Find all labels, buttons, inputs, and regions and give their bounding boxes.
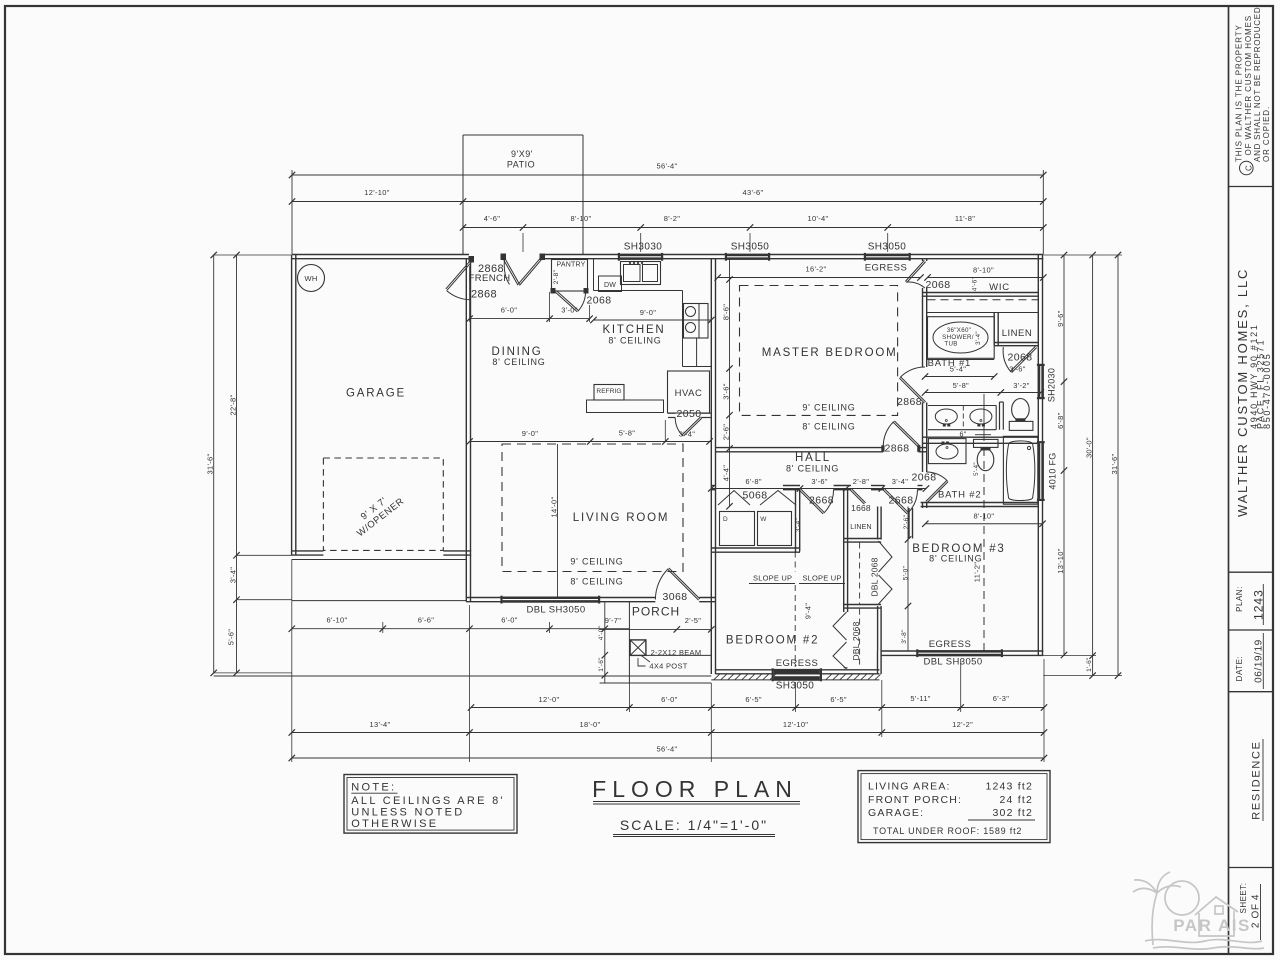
svg-text:DBL SH3050: DBL SH3050 [923, 657, 982, 668]
range [684, 304, 709, 339]
company name block [1229, 571, 1274, 573]
svg-text:2668: 2668 [809, 495, 834, 507]
svg-text:WH: WH [304, 274, 317, 283]
svg-text:DATE:: DATE: [1235, 656, 1244, 681]
linen closet door 2068 (bath1) [1010, 346, 1035, 371]
note box [344, 775, 517, 834]
bath1 north line [927, 359, 995, 361]
svg-text:31'-6": 31'-6" [1110, 454, 1119, 475]
bath2/bedroom3 wall [921, 502, 1039, 504]
svg-text:PORCH: PORCH [632, 605, 680, 619]
svg-text:2-2X12 BEAM: 2-2X12 BEAM [651, 648, 702, 657]
svg-text:2 OF 4: 2 OF 4 [1250, 894, 1261, 928]
bottom dim row 2 [471, 707, 1044, 709]
bedroom3 door 2668 [883, 490, 907, 514]
svg-text:1668: 1668 [851, 503, 871, 513]
svg-text:9'-0": 9'-0" [522, 429, 538, 438]
master width dim [718, 277, 921, 279]
laundry bifold 5068 [718, 491, 750, 506]
bath2 door 2068 [927, 482, 948, 503]
bath2 toilet [974, 439, 999, 447]
window SH3050 master egress [866, 254, 909, 260]
svg-text:9' CEILING: 9' CEILING [570, 557, 623, 567]
svg-text:9'-4": 9'-4" [804, 603, 813, 619]
porch vertical dims [604, 602, 606, 683]
svg-text:GARAGE:: GARAGE: [868, 807, 924, 819]
linen door 1668 [850, 490, 864, 504]
svg-text:18'-0": 18'-0" [580, 720, 601, 729]
svg-text:11'-8": 11'-8" [955, 214, 975, 223]
svg-text:SH3050: SH3050 [776, 681, 815, 692]
svg-text:2050: 2050 [677, 408, 702, 420]
master ceiling dashed [740, 286, 898, 416]
svg-text:BATH #2: BATH #2 [938, 490, 981, 501]
svg-text:REFRIG: REFRIG [596, 388, 621, 395]
svg-text:SCALE: 1/4"=1'-0": SCALE: 1/4"=1'-0" [620, 817, 768, 833]
svg-text:FRONT PORCH:: FRONT PORCH: [868, 794, 962, 806]
bath1 dims [925, 376, 994, 378]
svg-text:SHEET:: SHEET: [1239, 882, 1248, 913]
svg-text:3'-6": 3'-6" [1009, 365, 1025, 374]
svg-text:16'-2": 16'-2" [806, 265, 827, 274]
svg-text:ALL CEILINGS ARE 8': ALL CEILINGS ARE 8' [351, 795, 505, 807]
svg-text:2068: 2068 [926, 279, 951, 291]
pantry door 2068 [555, 292, 577, 312]
svg-text:2'-8": 2'-8" [553, 269, 560, 284]
svg-text:8' CEILING: 8' CEILING [492, 357, 545, 367]
hvac door 2050 [668, 412, 675, 414]
svg-text:3'-8": 3'-8" [901, 629, 908, 644]
window DBL SH3050 living room [503, 597, 598, 603]
master bath door 2868 [901, 377, 926, 402]
svg-text:3'-6": 3'-6" [811, 477, 827, 486]
svg-text:HVAC: HVAC [675, 388, 703, 399]
laundry D/W [720, 512, 755, 546]
svg-text:2068: 2068 [912, 472, 937, 484]
svg-text:12'-2": 12'-2" [952, 720, 973, 729]
kitchen sink [621, 262, 661, 285]
left dims [214, 254, 292, 256]
living room 14-0 dim [557, 444, 559, 598]
kitchen dim 9-0 [594, 319, 712, 321]
svg-text:56'-4": 56'-4" [657, 162, 678, 171]
svg-text:12'-10": 12'-10" [364, 188, 389, 197]
svg-text:RESIDENCE: RESIDENCE [1251, 740, 1263, 819]
svg-text:2'-8": 2'-8" [853, 477, 869, 486]
bedroom2 slope dashed [794, 552, 796, 573]
svg-text:DW: DW [604, 282, 616, 289]
svg-text:OF WALTHER CUSTOM HOMES: OF WALTHER CUSTOM HOMES [1244, 15, 1253, 156]
svg-text:8'-2": 8'-2" [664, 214, 680, 223]
window SH2030 bath1 [1038, 366, 1044, 397]
svg-text:2668: 2668 [889, 495, 914, 507]
bedroom3 slope dashed [983, 394, 985, 441]
bedroom2 closet bifold [833, 612, 847, 640]
svg-text:2'-5": 2'-5" [685, 616, 701, 625]
svg-text:1'-6": 1'-6" [1086, 657, 1093, 672]
bedroom3 west dims [907, 507, 909, 652]
svg-text:EGRESS: EGRESS [865, 262, 908, 273]
svg-text:36"X60": 36"X60" [947, 327, 971, 334]
title block divider [1228, 6, 1230, 954]
garage apron lines [292, 559, 467, 561]
bedroom2 wing south wall [716, 669, 880, 671]
garage front wall [292, 550, 324, 552]
garage east / dining west wall [465, 259, 467, 602]
svg-text:5'-8": 5'-8" [953, 381, 969, 390]
svg-text:GARAGE: GARAGE [346, 388, 406, 400]
svg-text:4'-6": 4'-6" [484, 214, 500, 223]
svg-text:8'-10": 8'-10" [973, 512, 994, 521]
svg-text:C: C [1245, 165, 1254, 171]
svg-text:3'-4": 3'-4" [892, 477, 908, 486]
svg-text:10'-4": 10'-4" [808, 214, 829, 223]
bedroom3 west wall stub [908, 508, 910, 539]
svg-text:FRENCH: FRENCH [469, 273, 511, 284]
svg-text:DBL 2068: DBL 2068 [869, 557, 879, 596]
svg-text:30'-0": 30'-0" [1085, 437, 1094, 458]
svg-text:24 ft2: 24 ft2 [1000, 794, 1033, 806]
svg-text:D: D [723, 516, 728, 523]
svg-text:3'-4": 3'-4" [975, 331, 982, 345]
svg-text:5'-4": 5'-4" [973, 462, 980, 476]
hall south wall [711, 485, 716, 487]
svg-text:2868: 2868 [897, 396, 922, 408]
svg-text:1243 ft2: 1243 ft2 [985, 781, 1033, 793]
living room front wall [466, 597, 655, 599]
svg-text:PANTRY: PANTRY [557, 262, 586, 269]
residence box [1229, 867, 1274, 869]
svg-text:9'-6": 9'-6" [1056, 310, 1065, 326]
svg-text:12'-0": 12'-0" [539, 695, 560, 704]
bath2 vanity [928, 439, 966, 464]
bottom dim row 4 [292, 757, 1044, 759]
svg-text:9'X9': 9'X9' [511, 149, 533, 159]
front door 3068 [669, 568, 700, 599]
wic width dim [928, 277, 1044, 279]
svg-text:PATIO: PATIO [507, 160, 535, 170]
east exterior wall [1037, 255, 1039, 656]
svg-text:BEDROOM #2: BEDROOM #2 [726, 635, 819, 647]
master entry door 2868 [894, 421, 920, 446]
svg-text:9' CEILING: 9' CEILING [802, 403, 855, 413]
svg-text:302 ft2: 302 ft2 [992, 807, 1033, 819]
svg-text:SH3030: SH3030 [624, 242, 663, 253]
svg-text:DBL SH3050: DBL SH3050 [526, 605, 585, 616]
svg-text:13'-4": 13'-4" [370, 720, 391, 729]
french doors 2868 at dining/patio [469, 256, 475, 263]
svg-text:OR COPIED.: OR COPIED. [1262, 106, 1271, 162]
bath1 partition [999, 402, 1001, 430]
closet dashed rods [859, 543, 861, 605]
svg-text:OTHERWISE: OTHERWISE [351, 818, 438, 830]
svg-text:850-470-0005: 850-470-0005 [1262, 353, 1272, 429]
bedroom2 door 2668 [799, 490, 823, 514]
svg-text:NOTE:: NOTE: [351, 782, 396, 794]
shower/tub bath1 [928, 317, 995, 359]
svg-text:2'-6": 2'-6" [722, 424, 731, 440]
svg-text:56'-4": 56'-4" [657, 745, 678, 754]
mid dims 9-0 5-8 3-4 [470, 441, 712, 443]
window DBL SH3050 bedroom3 [918, 650, 1000, 656]
post and beam [630, 640, 646, 656]
svg-text:2068: 2068 [1008, 352, 1033, 364]
svg-text:22'-8": 22'-8" [229, 395, 238, 416]
refrigerator [594, 385, 624, 401]
bath2 tub [1003, 436, 1037, 504]
svg-text:4X4 POST: 4X4 POST [649, 662, 687, 671]
hvac closet [668, 371, 710, 413]
svg-text:8' CEILING: 8' CEILING [570, 577, 623, 587]
svg-text:8' CEILING: 8' CEILING [786, 464, 839, 474]
svg-text:4'-4": 4'-4" [722, 465, 731, 481]
svg-text:FLOOR PLAN: FLOOR PLAN [592, 776, 798, 802]
svg-text:3'-4": 3'-4" [795, 517, 802, 532]
svg-text:W: W [760, 516, 767, 523]
closet east wall [877, 507, 879, 540]
window 4010 FG bath2 [1038, 443, 1044, 499]
window SH3030 kitchen [620, 254, 661, 260]
porch slab [628, 602, 630, 683]
svg-text:PLAN:: PLAN: [1235, 586, 1244, 612]
svg-text:6'-0": 6'-0" [501, 306, 517, 315]
svg-text:3'-2": 3'-2" [1013, 381, 1029, 390]
svg-text:8' CEILING: 8' CEILING [802, 422, 855, 432]
svg-text:4'-6": 4'-6" [972, 276, 979, 291]
area table [858, 771, 1050, 843]
bedroom3 top dim [925, 523, 1042, 525]
svg-text:8'-6": 8'-6" [722, 304, 731, 320]
svg-text:5068: 5068 [743, 490, 768, 502]
svg-text:2'-6": 2'-6" [903, 514, 910, 529]
bottom dim row 3 [292, 732, 1044, 734]
linen south wall [994, 342, 1038, 344]
svg-text:SH3050: SH3050 [868, 242, 907, 253]
svg-text:6'-8": 6'-8" [745, 477, 761, 486]
svg-text:3068: 3068 [663, 591, 688, 603]
svg-text:WALTHER CUSTOM HOMES, LLC: WALTHER CUSTOM HOMES, LLC [1235, 268, 1250, 517]
svg-text:SLOPE UP: SLOPE UP [802, 574, 841, 583]
brick hatch strip [711, 679, 879, 681]
svg-text:LINEN: LINEN [850, 524, 872, 531]
right dims [1043, 254, 1122, 256]
svg-text:2868: 2868 [471, 289, 497, 301]
svg-text:3'-4": 3'-4" [679, 430, 695, 439]
svg-text:3'-6": 3'-6" [722, 383, 731, 399]
bottom dim row 1 [292, 628, 630, 630]
svg-text:SLOPE UP: SLOPE UP [753, 574, 792, 583]
wet wall: master east / bath west [922, 259, 924, 261]
window SH3050 master-1 [727, 254, 768, 260]
linen west wall [993, 313, 995, 346]
master left vertical dims [729, 258, 731, 506]
svg-text:5'-6": 5'-6" [227, 629, 236, 645]
svg-text:9'-0": 9'-0" [640, 308, 656, 317]
svg-text:8'-10": 8'-10" [973, 266, 994, 275]
date box [1229, 691, 1274, 693]
svg-text:11'-2": 11'-2" [973, 562, 982, 582]
svg-text:3'-0": 3'-0" [561, 306, 577, 315]
master south / hall north wall [716, 447, 884, 449]
svg-text:LINEN: LINEN [1002, 328, 1032, 339]
patio outline [463, 134, 583, 136]
laundry east wall [795, 490, 797, 552]
svg-text:2068: 2068 [587, 295, 612, 307]
svg-text:8' CEILING: 8' CEILING [608, 336, 661, 346]
svg-text:2868: 2868 [885, 443, 910, 455]
svg-text:5'-0": 5'-0" [903, 565, 910, 580]
svg-text:LIVING ROOM: LIVING ROOM [573, 512, 669, 524]
garage west wall [291, 255, 293, 556]
svg-text:6'-5": 6'-5" [830, 695, 846, 704]
watermark logo [1133, 872, 1264, 949]
living ceiling dashed [502, 444, 683, 572]
dishwasher [599, 276, 622, 292]
svg-text:PAR AIS: PAR AIS [1173, 916, 1251, 935]
top dims [291, 170, 293, 254]
svg-text:4'-0": 4'-0" [598, 625, 605, 640]
svg-text:MASTER BEDROOM: MASTER BEDROOM [762, 347, 898, 359]
svg-text:WIC: WIC [989, 282, 1010, 293]
svg-text:HALL: HALL [795, 452, 831, 464]
svg-text:6'-3": 6'-3" [993, 694, 1009, 703]
svg-text:6'-10": 6'-10" [327, 616, 348, 625]
bath1 toilet [1012, 399, 1030, 421]
kitchen lower counter [587, 400, 664, 413]
bedroom3 closet bifold [879, 541, 893, 572]
dining dims [470, 318, 590, 320]
svg-text:8'-10": 8'-10" [571, 214, 592, 223]
svg-text:5'-4": 5'-4" [950, 365, 966, 374]
svg-text:6'-8": 6'-8" [1056, 412, 1065, 428]
west wing wall [710, 259, 712, 674]
svg-text:TUB: TUB [944, 341, 957, 348]
svg-text:3'-4": 3'-4" [229, 567, 238, 583]
svg-text:EGRESS: EGRESS [929, 639, 972, 650]
hall dims [711, 488, 926, 490]
svg-text:4010 FG: 4010 FG [1048, 452, 1058, 489]
south wall step connector [877, 651, 879, 674]
svg-text:43'-6": 43'-6" [743, 188, 764, 197]
svg-text:12'-10": 12'-10" [783, 720, 808, 729]
garage door dashed [323, 458, 443, 550]
kitchen counters [594, 290, 683, 292]
north exterior wall [292, 254, 469, 256]
svg-text:5'-8": 5'-8" [619, 429, 635, 438]
pantry [552, 260, 588, 292]
svg-text:1'-6": 1'-6" [598, 657, 605, 672]
water heater [298, 265, 325, 292]
svg-text:AND SHALL NOT BE REPRODUCED: AND SHALL NOT BE REPRODUCED [1253, 7, 1262, 162]
svg-text:UNLESS NOTED: UNLESS NOTED [351, 807, 464, 819]
svg-text:SH2030: SH2030 [1047, 368, 1057, 402]
svg-text:KITCHEN: KITCHEN [602, 324, 665, 336]
svg-text:6'-6": 6'-6" [418, 616, 434, 625]
laundry south wall [711, 547, 800, 549]
svg-text:6'-5": 6'-5" [745, 695, 761, 704]
svg-text:9'-7": 9'-7" [605, 616, 621, 625]
svg-text:5'-11": 5'-11" [910, 694, 930, 703]
svg-text:6'-0": 6'-0" [501, 616, 517, 625]
svg-text:6": 6" [960, 432, 967, 439]
bedroom3 south wall [881, 650, 1043, 652]
svg-text:TOTAL UNDER ROOF: 1589 ft2: TOTAL UNDER ROOF: 1589 ft2 [873, 826, 1022, 836]
svg-text:LIVING AREA:: LIVING AREA: [868, 781, 951, 793]
svg-text:14'-0": 14'-0" [550, 497, 559, 518]
window SH3050 bedroom2 [774, 669, 820, 674]
svg-text:31'-6": 31'-6" [206, 454, 215, 475]
bath1 vanity [928, 405, 996, 407]
svg-text:6'-0": 6'-0" [661, 695, 677, 704]
svg-text:13'-10": 13'-10" [1056, 548, 1065, 573]
master door 2068 to WIC strip [905, 260, 924, 281]
WIC shelf dashed [928, 299, 1039, 301]
closet divider walls [844, 538, 881, 540]
svg-text:THIS PLAN IS THE PROPERTY: THIS PLAN IS THE PROPERTY [1234, 24, 1243, 162]
shower room north line [927, 312, 1039, 314]
bedroom2 east wall [843, 490, 845, 613]
copyright box [1229, 186, 1274, 188]
svg-text:EGRESS: EGRESS [776, 658, 819, 669]
bath1/bath2 wall [923, 436, 1039, 438]
WIC south wall [923, 292, 1039, 294]
plan number box [1229, 629, 1274, 631]
bottom extension lines [291, 560, 293, 763]
